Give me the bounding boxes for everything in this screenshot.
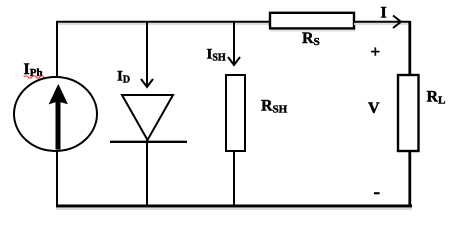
current source IPh	[14, 77, 97, 151]
arrowhead into diode	[141, 79, 153, 87]
wire left vertical lower	[56, 149, 58, 206]
wire Rsh branch lower	[233, 151, 235, 206]
wire right vertical lower	[408, 151, 411, 208]
diode D triangle	[122, 95, 173, 140]
wire top horizontal (node A to Rs)	[56, 22, 270, 25]
label minus	[374, 192, 380, 194]
svg-text:I: I	[381, 5, 387, 22]
svg-text:+: +	[371, 42, 381, 61]
wire bottom horizontal	[56, 206, 412, 210]
wire right vertical upper	[408, 21, 411, 79]
wire diode branch upper	[146, 21, 148, 86]
resistor RS	[270, 13, 355, 32]
resistor RL	[398, 75, 419, 151]
resistor RSH	[226, 75, 245, 151]
arrowhead current I	[393, 16, 401, 29]
svg-text:V: V	[368, 100, 380, 117]
spellcheck squiggle under IPh	[24, 76, 44, 78]
wire diode branch lower	[146, 140, 148, 206]
wire Rs to right corner	[354, 22, 411, 25]
wire Rsh branch upper	[233, 21, 235, 64]
diode cathode bar	[110, 141, 187, 143]
wire left vertical	[56, 21, 58, 79]
arrowhead into Rsh	[228, 57, 240, 65]
